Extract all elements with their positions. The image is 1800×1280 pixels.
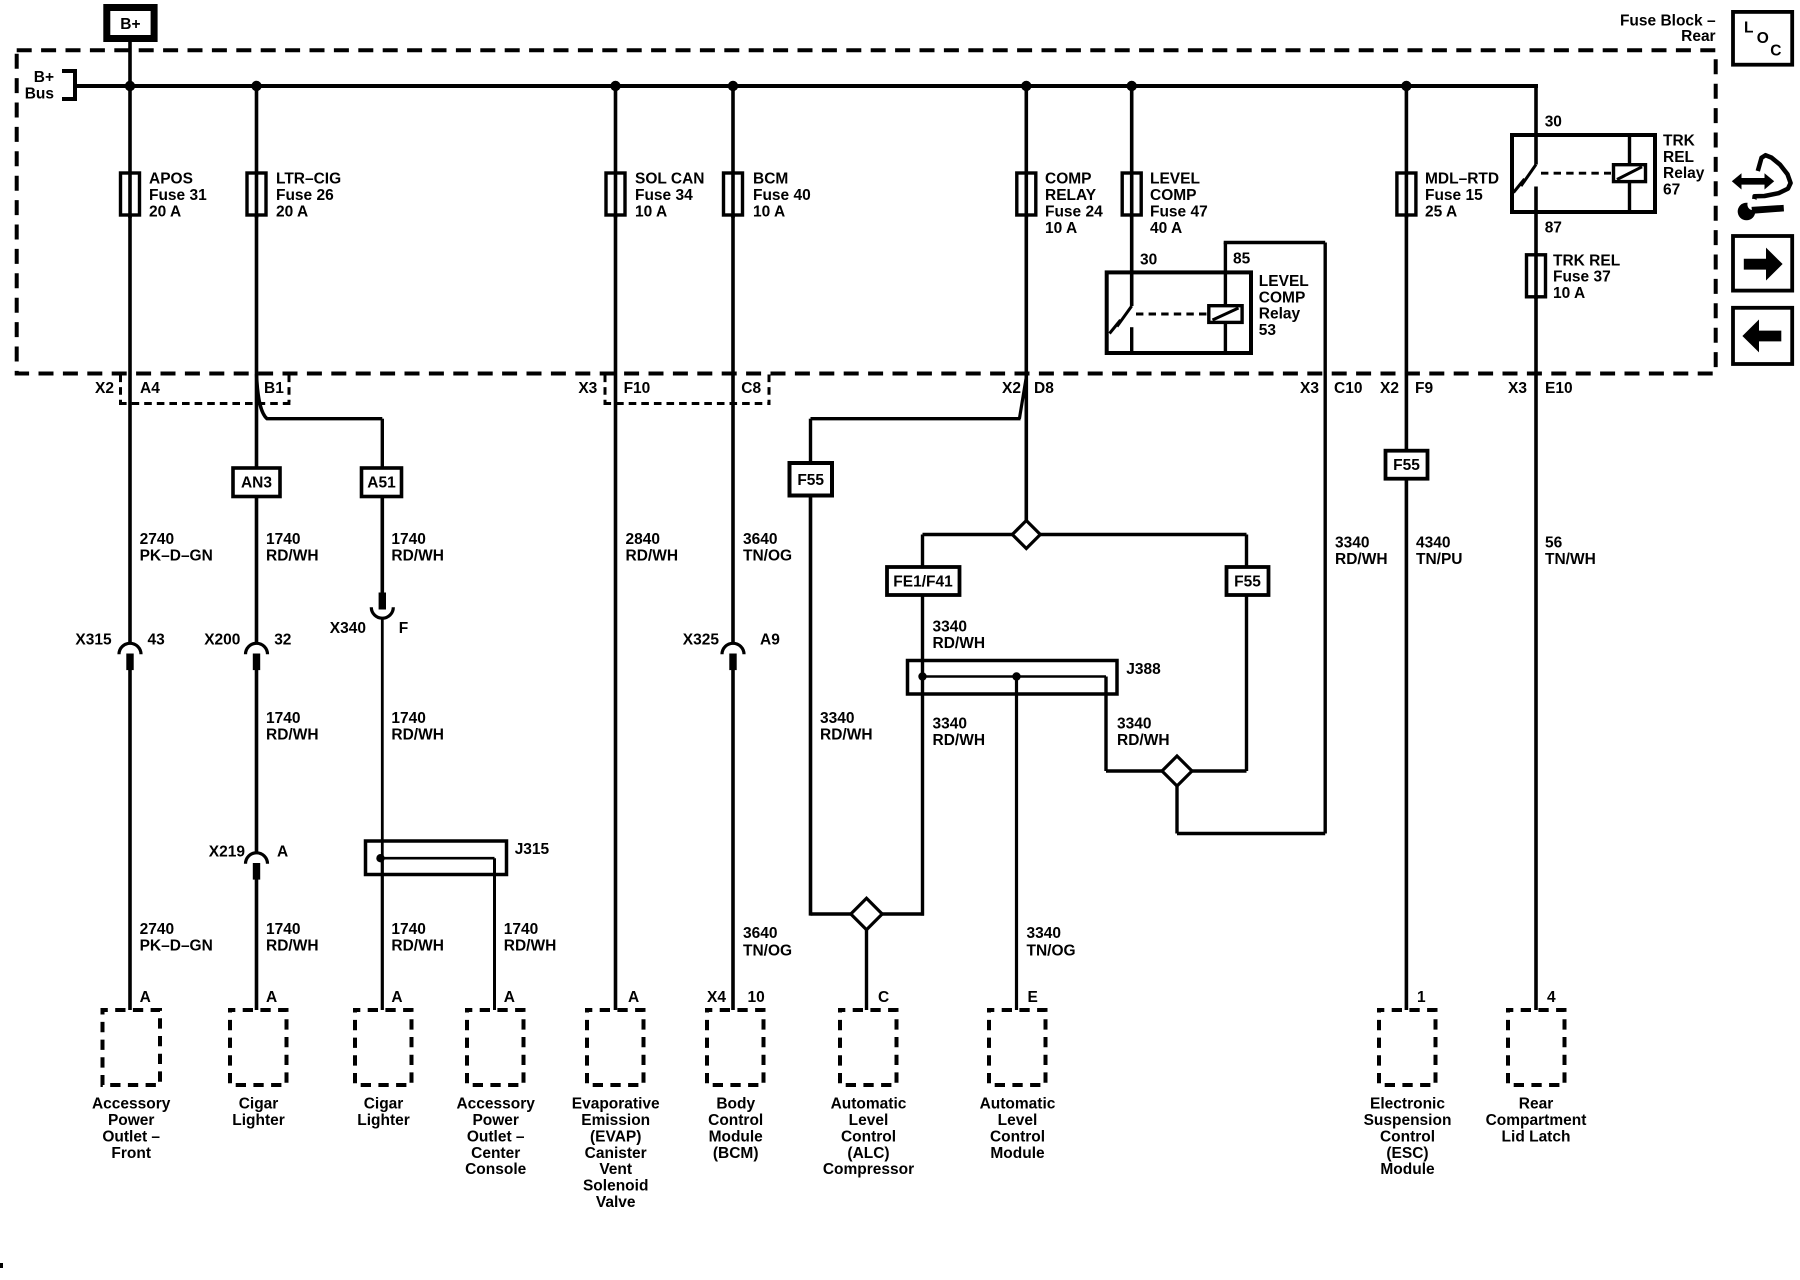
wire X219 to Cigar Lighter <box>255 879 259 1011</box>
svg-text:RD/WH: RD/WH <box>1117 732 1170 749</box>
svg-text:Electronic: Electronic <box>1370 1096 1445 1113</box>
wire relay 53 pin 85 up and over to connector C10 <box>1224 243 1227 273</box>
svg-text:Bus: Bus <box>25 85 54 102</box>
svg-text:Fuse 15: Fuse 15 <box>1425 187 1483 204</box>
svg-text:Power: Power <box>108 1112 155 1129</box>
junction dot bus / MDL-RTD <box>1401 81 1411 91</box>
svg-text:Rear: Rear <box>1519 1096 1553 1113</box>
wire J388 middle leg to Automatic Level Control Module <box>1015 677 1018 1011</box>
wire AN3 to X200 <box>255 497 259 645</box>
svg-text:X3: X3 <box>578 380 597 397</box>
svg-text:COMP: COMP <box>1045 171 1092 188</box>
wire fuse 24 through D8 to splice diamond <box>1025 215 1029 521</box>
svg-text:32: 32 <box>274 631 291 648</box>
svg-text:20 A: 20 A <box>276 204 308 221</box>
svg-text:F: F <box>399 620 408 637</box>
svg-text:X200: X200 <box>204 631 240 648</box>
svg-text:1740: 1740 <box>266 921 300 938</box>
svg-text:A: A <box>628 989 639 1006</box>
svg-text:Automatic: Automatic <box>831 1096 907 1113</box>
svg-text:(BCM): (BCM) <box>713 1145 759 1162</box>
svg-text:D8: D8 <box>1034 380 1054 397</box>
svg-text:AN3: AN3 <box>241 475 272 492</box>
svg-text:1740: 1740 <box>266 710 300 727</box>
svg-text:Emission: Emission <box>581 1112 650 1129</box>
svg-text:Outlet –: Outlet – <box>467 1128 525 1145</box>
junction dot inside J315 <box>376 854 384 862</box>
wire fuse 26 through B1 to connector AN3 <box>255 215 259 468</box>
svg-text:A: A <box>277 844 288 861</box>
svg-text:APOS: APOS <box>149 171 193 188</box>
svg-text:Power: Power <box>472 1112 519 1129</box>
svg-text:Canister: Canister <box>585 1145 647 1162</box>
svg-text:X2: X2 <box>1380 380 1399 397</box>
svg-text:1740: 1740 <box>504 921 538 938</box>
svg-text:RD/WH: RD/WH <box>266 938 319 955</box>
module box Electronic Suspension Control Module <box>1379 1010 1436 1085</box>
wire splice to FE1/F41 <box>921 535 924 568</box>
wire relay 67 pin 87 to fuse 37 <box>1534 187 1538 300</box>
svg-text:PK–D–GN: PK–D–GN <box>140 938 213 955</box>
page corner mark <box>0 1263 3 1268</box>
svg-text:TN/OG: TN/OG <box>743 548 792 565</box>
svg-text:RD/WH: RD/WH <box>933 732 986 749</box>
svg-text:FE1/F41: FE1/F41 <box>893 574 953 591</box>
svg-text:F55: F55 <box>1393 457 1420 474</box>
svg-text:Level: Level <box>998 1112 1038 1129</box>
svg-text:Control: Control <box>990 1128 1045 1145</box>
svg-text:F55: F55 <box>797 472 824 489</box>
splice diamond middle <box>1162 756 1192 786</box>
wire jog D8 branch to F55 <box>1019 377 1026 419</box>
relay K67 TRK REL Relay box <box>1512 135 1655 212</box>
svg-text:E: E <box>1028 989 1038 1006</box>
svg-text:1740: 1740 <box>266 531 300 548</box>
wire F55 first down to splice <box>809 496 813 916</box>
wire A51 to X340 <box>380 497 384 594</box>
junction dot J388 left <box>918 672 926 680</box>
svg-text:RD/WH: RD/WH <box>1335 551 1388 568</box>
svg-text:E10: E10 <box>1545 380 1573 397</box>
junction dot bus / APOS <box>125 81 135 91</box>
wire splice to F55 second <box>1192 769 1247 772</box>
svg-text:Console: Console <box>465 1161 527 1178</box>
svg-text:10 A: 10 A <box>753 204 785 221</box>
junction dot J388 middle <box>1012 672 1020 680</box>
svg-text:1740: 1740 <box>391 531 425 548</box>
wire J315 branch to Accessory Power Outlet Center Console <box>493 858 496 1010</box>
connector F55 first <box>809 419 812 463</box>
fuse F37 TRK REL <box>1527 255 1546 297</box>
fuse F15 MDL-RTD <box>1397 173 1416 215</box>
connector FE1/F41 <box>887 567 960 595</box>
svg-text:Automatic: Automatic <box>980 1096 1056 1113</box>
svg-text:X315: X315 <box>75 631 112 648</box>
module box Rear Compartment Lid Latch <box>1508 1010 1565 1085</box>
B+ Bus bracket <box>62 71 75 99</box>
wire B+ bus <box>75 84 1538 88</box>
connector A51 <box>362 468 402 497</box>
power feed B+ box <box>103 4 157 42</box>
svg-text:REL: REL <box>1663 149 1694 166</box>
wire fuse 15 through F9 to F55 third <box>1405 215 1409 451</box>
svg-text:3340: 3340 <box>933 619 967 636</box>
svg-text:F9: F9 <box>1415 380 1433 397</box>
splice J388 box <box>908 661 1118 695</box>
svg-text:(ALC): (ALC) <box>847 1145 889 1162</box>
svg-text:A: A <box>140 989 151 1006</box>
relay 67 control dashed line <box>1541 172 1611 175</box>
svg-text:4340: 4340 <box>1416 535 1450 552</box>
svg-text:Fuse 24: Fuse 24 <box>1045 204 1103 221</box>
svg-text:Front: Front <box>111 1145 151 1162</box>
svg-text:A: A <box>504 989 515 1006</box>
svg-text:Fuse Block –: Fuse Block – <box>1620 13 1716 30</box>
svg-text:3640: 3640 <box>743 925 777 942</box>
svg-text:20 A: 20 A <box>149 204 181 221</box>
svg-text:Module: Module <box>1380 1161 1435 1178</box>
svg-text:L: L <box>1744 19 1753 36</box>
wire branch B1 to A51 feed <box>257 374 383 419</box>
svg-text:RD/WH: RD/WH <box>391 548 444 565</box>
wire F55 second up to splice bar <box>1245 535 1248 568</box>
svg-text:Center: Center <box>471 1145 520 1162</box>
wire branch down to connector A51 <box>381 419 384 468</box>
splice J315 box <box>366 841 507 875</box>
fuse F47 LEVEL COMP <box>1122 173 1141 215</box>
svg-text:Control: Control <box>841 1128 896 1145</box>
module box EVAP Canister Vent Solenoid Valve <box>587 1010 644 1085</box>
svg-text:Relay: Relay <box>1663 165 1705 182</box>
svg-text:3340: 3340 <box>1117 716 1151 733</box>
connector AN3 <box>233 468 280 497</box>
svg-text:O: O <box>1757 30 1769 47</box>
wire bus to fuse F24 COMP RELAY <box>1025 86 1029 218</box>
svg-text:10 A: 10 A <box>635 204 667 221</box>
svg-text:2740: 2740 <box>140 921 174 938</box>
fuse F26 LTR-CIG <box>247 173 266 215</box>
relay 53 control dashed line <box>1136 313 1209 316</box>
svg-text:10: 10 <box>748 989 765 1006</box>
module box Accessory Power Outlet Center Console <box>467 1010 524 1085</box>
svg-text:X219: X219 <box>209 844 246 861</box>
wire splice middle down to C10 run <box>1175 786 1178 834</box>
svg-text:Cigar: Cigar <box>239 1096 279 1113</box>
relay 53 coil <box>1209 306 1242 323</box>
wire B+ box to bus <box>128 42 132 86</box>
fuse block dashed border (Fuse Block - Rear boundary) <box>17 50 1716 373</box>
svg-text:A: A <box>266 989 277 1006</box>
svg-text:A: A <box>391 989 402 1006</box>
LOC reference box <box>1733 12 1792 65</box>
fuse F31 APOS <box>121 173 140 215</box>
svg-text:30: 30 <box>1140 252 1157 269</box>
svg-text:43: 43 <box>148 631 166 648</box>
svg-text:Compartment: Compartment <box>1486 1112 1587 1129</box>
svg-text:RD/WH: RD/WH <box>820 727 873 744</box>
relay 53 coil pin wires <box>1224 272 1227 305</box>
svg-text:67: 67 <box>1663 182 1680 199</box>
svg-text:PK–D–GN: PK–D–GN <box>140 548 213 565</box>
svg-text:TN/OG: TN/OG <box>1027 943 1076 960</box>
svg-text:Fuse 31: Fuse 31 <box>149 187 207 204</box>
svg-text:LEVEL: LEVEL <box>1150 171 1200 188</box>
wire fuse 34 through F10 to EVAP valve <box>614 215 618 1010</box>
svg-text:C10: C10 <box>1334 380 1362 397</box>
module box Automatic Level Control Compressor <box>840 1010 897 1085</box>
svg-text:Vent: Vent <box>599 1161 632 1178</box>
svg-text:TRK: TRK <box>1663 132 1696 149</box>
svg-text:SOL CAN: SOL CAN <box>635 171 704 188</box>
svg-text:Accessory: Accessory <box>92 1096 171 1113</box>
wire bus to fuse F26 LTR-CIG <box>255 86 259 218</box>
junction dot bus / COMP RELAY <box>1021 81 1031 91</box>
svg-text:10 A: 10 A <box>1045 220 1077 237</box>
module box Cigar Lighter 1 <box>230 1010 287 1085</box>
connector dashed box around A4-B1 <box>119 375 291 404</box>
svg-text:X325: X325 <box>683 631 720 648</box>
svg-text:Lid Latch: Lid Latch <box>1502 1128 1571 1145</box>
svg-text:C8: C8 <box>741 380 761 397</box>
module box Accessory Power Outlet Front <box>103 1010 161 1085</box>
junction dot bus / BCM <box>728 81 738 91</box>
wire J315 to Cigar Lighter second <box>381 856 384 1010</box>
wire fuse 31 through A4 to connector X315 <box>128 215 132 644</box>
wire bus to fuse F47 LEVEL COMP <box>1130 86 1134 218</box>
svg-text:COMP: COMP <box>1150 187 1197 204</box>
svg-text:RD/WH: RD/WH <box>391 938 444 955</box>
svg-text:87: 87 <box>1545 220 1562 237</box>
svg-text:3340: 3340 <box>1027 925 1061 942</box>
svg-text:30: 30 <box>1545 113 1562 130</box>
svg-text:X3: X3 <box>1508 380 1527 397</box>
svg-text:RD/WH: RD/WH <box>933 635 986 652</box>
wire bus down to TRK REL relay pin 30 <box>1534 84 1538 165</box>
wire X315 to Accessory Power Outlet Front <box>128 669 132 1010</box>
svg-text:Control: Control <box>1380 1128 1435 1145</box>
svg-text:Fuse 40: Fuse 40 <box>753 187 811 204</box>
wire X340 to splice J315 <box>381 618 384 858</box>
wire FE1/F41 to J388 <box>921 595 924 678</box>
svg-text:2740: 2740 <box>140 531 174 548</box>
svg-text:85: 85 <box>1233 251 1251 268</box>
module box Cigar Lighter 2 <box>355 1010 412 1085</box>
svg-text:RELAY: RELAY <box>1045 187 1097 204</box>
navigation icon arrow right box <box>1733 236 1792 291</box>
wire J388 internal bar <box>923 675 1107 678</box>
svg-text:10 A: 10 A <box>1553 285 1585 302</box>
svg-text:A9: A9 <box>760 631 780 648</box>
svg-text:(EVAP): (EVAP) <box>590 1128 641 1145</box>
svg-text:F10: F10 <box>624 380 651 397</box>
svg-text:Module: Module <box>990 1145 1045 1162</box>
connector F55 third <box>1386 451 1428 479</box>
svg-text:Fuse 34: Fuse 34 <box>635 187 693 204</box>
splice diamond below D8 <box>923 533 1013 536</box>
svg-text:C: C <box>1770 42 1781 59</box>
svg-text:53: 53 <box>1259 322 1277 339</box>
fuse F24 COMP RELAY <box>1017 173 1036 215</box>
svg-text:3340: 3340 <box>1335 535 1369 552</box>
svg-text:RD/WH: RD/WH <box>266 727 319 744</box>
svg-text:X3: X3 <box>1300 380 1319 397</box>
svg-text:RD/WH: RD/WH <box>391 727 444 744</box>
wire X200 to X219 <box>255 669 259 854</box>
svg-text:MDL–RTD: MDL–RTD <box>1425 171 1499 188</box>
relay K53 LEVEL COMP Relay box <box>1107 272 1251 353</box>
wire J315 internal branch <box>381 857 495 860</box>
module box Automatic Level Control Module <box>989 1010 1046 1085</box>
svg-text:Fuse 26: Fuse 26 <box>276 187 334 204</box>
svg-text:Fuse 47: Fuse 47 <box>1150 204 1208 221</box>
svg-text:Cigar: Cigar <box>364 1096 404 1113</box>
svg-text:Control: Control <box>708 1112 763 1129</box>
service icon double arrow with wrench <box>1732 155 1791 220</box>
svg-text:1: 1 <box>1417 989 1426 1006</box>
svg-text:Relay: Relay <box>1259 306 1301 323</box>
relay 67 coil <box>1614 165 1646 182</box>
svg-text:(ESC): (ESC) <box>1386 1145 1428 1162</box>
svg-text:X4: X4 <box>707 989 726 1006</box>
svg-text:Lighter: Lighter <box>232 1112 285 1129</box>
junction dot bus / SOL CAN <box>610 81 620 91</box>
svg-text:J315: J315 <box>515 841 550 858</box>
svg-text:X340: X340 <box>330 620 366 637</box>
svg-text:COMP: COMP <box>1259 289 1306 306</box>
svg-text:X2: X2 <box>1002 380 1021 397</box>
junction dot bus / LEVEL COMP <box>1127 81 1137 91</box>
svg-text:J388: J388 <box>1126 661 1161 678</box>
wire bus to fuse F31 APOS <box>128 86 132 218</box>
junction dot bus / LTR-CIG <box>251 81 261 91</box>
splice diamond lower left <box>811 912 853 915</box>
svg-text:Body: Body <box>716 1096 755 1113</box>
wire fuse 47 into relay 53 pin 30 <box>1130 215 1134 306</box>
svg-text:3340: 3340 <box>933 716 967 733</box>
wire splice to ALC compressor <box>865 930 868 1010</box>
svg-text:Lighter: Lighter <box>357 1112 410 1129</box>
wire X325 to Body Control Module <box>731 669 735 1010</box>
svg-text:RD/WH: RD/WH <box>266 548 319 565</box>
svg-text:Evaporative: Evaporative <box>572 1096 660 1113</box>
svg-text:X2: X2 <box>95 380 114 397</box>
svg-text:Rear: Rear <box>1681 28 1715 45</box>
fuse F34 SOL CAN <box>606 173 625 215</box>
svg-text:TN/PU: TN/PU <box>1416 551 1463 568</box>
wire F55 third to ESC module <box>1405 479 1409 1010</box>
svg-text:4: 4 <box>1547 989 1556 1006</box>
navigation icon arrow left box <box>1733 308 1792 364</box>
svg-text:Accessory: Accessory <box>456 1096 535 1113</box>
relay 53 switch arm <box>1117 306 1132 327</box>
wire fuse 37 to connector E10 <box>1534 297 1538 1010</box>
svg-text:2840: 2840 <box>626 531 660 548</box>
svg-text:1740: 1740 <box>391 710 425 727</box>
connector dashed box around F10-C8 <box>604 375 771 404</box>
wire J388 right leg down to splice diamond <box>1104 677 1107 772</box>
svg-text:TRK REL: TRK REL <box>1553 252 1620 269</box>
svg-text:Outlet –: Outlet – <box>102 1128 160 1145</box>
wire bus to fuse F34 SOL CAN <box>614 86 618 218</box>
svg-text:3640: 3640 <box>743 531 777 548</box>
svg-text:BCM: BCM <box>753 171 788 188</box>
relay 67 coil pin wires <box>1628 135 1631 165</box>
svg-text:1740: 1740 <box>391 921 425 938</box>
svg-text:C: C <box>878 989 889 1006</box>
svg-text:TN/OG: TN/OG <box>743 943 792 960</box>
svg-text:Fuse 37: Fuse 37 <box>1553 269 1611 286</box>
svg-text:Level: Level <box>849 1112 889 1129</box>
svg-text:RD/WH: RD/WH <box>626 548 679 565</box>
svg-text:TN/WH: TN/WH <box>1545 551 1596 568</box>
wire bus to fuse F40 BCM <box>731 86 735 218</box>
svg-text:B+: B+ <box>34 69 54 86</box>
module box Body Control Module <box>707 1010 764 1085</box>
svg-text:25 A: 25 A <box>1425 204 1457 221</box>
svg-text:B+: B+ <box>120 16 140 33</box>
svg-text:LTR–CIG: LTR–CIG <box>276 171 341 188</box>
wire J388 left leg down to ALC compressor splice <box>921 677 924 916</box>
connector F55 second <box>1227 567 1269 595</box>
svg-text:56: 56 <box>1545 535 1563 552</box>
relay 67 switch arm <box>1521 165 1536 187</box>
svg-text:A51: A51 <box>367 475 396 492</box>
svg-text:Suspension: Suspension <box>1364 1112 1452 1129</box>
svg-text:Compressor: Compressor <box>823 1161 914 1178</box>
svg-text:Solenoid: Solenoid <box>583 1178 648 1195</box>
svg-text:LEVEL: LEVEL <box>1259 273 1309 290</box>
svg-text:A4: A4 <box>140 380 160 397</box>
svg-text:40 A: 40 A <box>1150 220 1182 237</box>
svg-text:RD/WH: RD/WH <box>504 938 557 955</box>
fuse F40 BCM <box>724 173 743 215</box>
wire bus to fuse F15 MDL-RTD <box>1405 86 1409 218</box>
svg-text:Valve: Valve <box>596 1194 636 1211</box>
svg-text:Module: Module <box>709 1128 764 1145</box>
wire fuse 40 through C8 to connector X325 <box>731 215 735 644</box>
svg-text:B1: B1 <box>264 380 284 397</box>
svg-text:3340: 3340 <box>820 710 854 727</box>
svg-text:F55: F55 <box>1234 574 1261 591</box>
relay 53 switch output stub <box>1130 327 1133 353</box>
